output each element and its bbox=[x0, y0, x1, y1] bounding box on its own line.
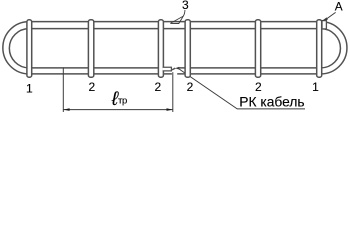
band 6 (right clamp) bbox=[317, 20, 322, 77]
svg-text:1: 1 bbox=[312, 80, 319, 94]
wire top cable run upper edge bbox=[29, 21, 321, 23]
dimension arrowhead right bbox=[167, 108, 173, 111]
leader for label 3 with open elongated arrowhead bbox=[170, 10, 185, 24]
wire bottom cable run upper edge (right of joint) bbox=[179, 67, 321, 69]
band 2 (second clamp) bbox=[88, 20, 93, 77]
svg-text:3: 3 bbox=[182, 0, 189, 12]
dimension extension line right bbox=[172, 72, 174, 112]
right bend inner arc bbox=[321, 29, 341, 68]
wire bottom cable run upper edge (left of joint) bbox=[29, 67, 163, 69]
band 1 (left clamp) bbox=[27, 20, 32, 77]
dimension extension line left bbox=[62, 68, 64, 113]
label shelf under РК кабель bbox=[237, 108, 305, 110]
dimension line bbox=[63, 109, 173, 111]
leader for РК кабель bbox=[175, 67, 305, 109]
svg-text:тр: тр bbox=[118, 96, 127, 107]
cable end joint diagonal bbox=[172, 68, 175, 70]
wire bottom cable run lower edge (left of joint) bbox=[29, 73, 172, 75]
band 3 (third clamp) bbox=[158, 20, 163, 77]
left bend outer arc bbox=[3, 22, 29, 74]
svg-text:2: 2 bbox=[255, 80, 262, 94]
wire top cable run lower edge bbox=[29, 28, 321, 30]
band 5 (fifth clamp) bbox=[255, 20, 260, 77]
dimension arrowhead left bbox=[63, 108, 69, 111]
cable end sleeve at middle joint bbox=[163, 67, 172, 71]
leader line for РК кабель (passes behind band 4) bbox=[179, 69, 237, 109]
band 4 (fourth clamp) bbox=[185, 20, 190, 77]
svg-text:2: 2 bbox=[88, 80, 95, 94]
leader for label А bbox=[321, 12, 335, 21]
svg-text:2: 2 bbox=[187, 80, 194, 94]
left bend inner arc bbox=[9, 29, 29, 68]
end sleeve (detail А) right of band 6 bbox=[322, 21, 326, 29]
wire bottom cable run lower edge (right of joint) bbox=[177, 73, 321, 75]
right bend outer arc bbox=[321, 22, 347, 74]
svg-text:1: 1 bbox=[26, 81, 33, 95]
svg-text:А: А bbox=[335, 0, 343, 14]
svg-text:2: 2 bbox=[155, 80, 162, 94]
svg-text:РК кабель: РК кабель bbox=[239, 95, 304, 110]
